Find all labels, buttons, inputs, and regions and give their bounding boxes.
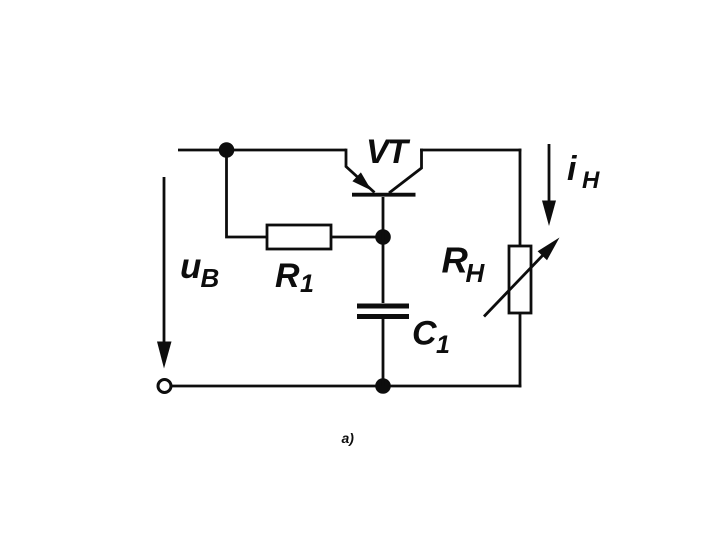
svg-text:i: i bbox=[567, 150, 578, 188]
svg-text:R: R bbox=[275, 257, 300, 295]
transistor VT emitter lead (with arrow) bbox=[346, 149, 375, 193]
wire transistor base-bar down to capacitor bbox=[382, 197, 385, 303]
wire RH bottom to bottom rail bbox=[519, 313, 522, 387]
arrow iH head bbox=[542, 201, 556, 227]
svg-text:H: H bbox=[466, 258, 486, 288]
capacitor C1 bottom plate bbox=[357, 314, 409, 319]
transistor VT collector lead bbox=[389, 149, 422, 193]
label R1 bbox=[275, 257, 314, 298]
svg-text:VT: VT bbox=[366, 133, 411, 171]
label a) caption bbox=[342, 430, 355, 446]
svg-text:B: B bbox=[201, 263, 220, 293]
wire top-left horizontal bbox=[178, 149, 346, 152]
label iH bbox=[567, 150, 600, 194]
label C1 bbox=[412, 315, 450, 360]
node base node dot bbox=[375, 229, 391, 245]
wire capacitor to bottom node bbox=[382, 318, 385, 386]
rheostat RH adjustment arrow bbox=[484, 254, 544, 317]
label VT bbox=[366, 133, 411, 171]
svg-text:a): a) bbox=[342, 430, 355, 446]
arrow uB head bbox=[157, 342, 172, 369]
arrow uB line bbox=[163, 177, 166, 344]
svg-text:1: 1 bbox=[300, 270, 314, 298]
wire bottom rail bbox=[172, 385, 521, 388]
capacitor C1 top plate bbox=[357, 304, 409, 309]
wire right vertical down to RH bbox=[519, 149, 522, 246]
label RH bbox=[442, 240, 486, 289]
rheostat RH arrowhead bbox=[538, 238, 560, 261]
node base-feed junction dot (top) bbox=[219, 142, 235, 158]
svg-text:C: C bbox=[412, 315, 437, 353]
transistor VT emitter arrowhead bbox=[352, 172, 371, 190]
resistor R1 bbox=[267, 225, 331, 249]
wire top-right horizontal bbox=[420, 149, 521, 152]
label uB bbox=[180, 247, 219, 293]
arrow iH line bbox=[548, 144, 551, 203]
svg-text:R: R bbox=[442, 240, 469, 281]
transistor VT base bar bbox=[352, 193, 416, 197]
svg-text:u: u bbox=[180, 247, 201, 286]
rheostat RH body bbox=[509, 246, 531, 313]
svg-text:1: 1 bbox=[436, 331, 450, 359]
wire R1 right to base node bbox=[331, 236, 383, 239]
wire junction down to R1 left bbox=[227, 151, 268, 237]
terminal input open circle bbox=[158, 380, 171, 393]
svg-text:H: H bbox=[582, 167, 600, 194]
node bottom junction dot bbox=[375, 378, 391, 394]
